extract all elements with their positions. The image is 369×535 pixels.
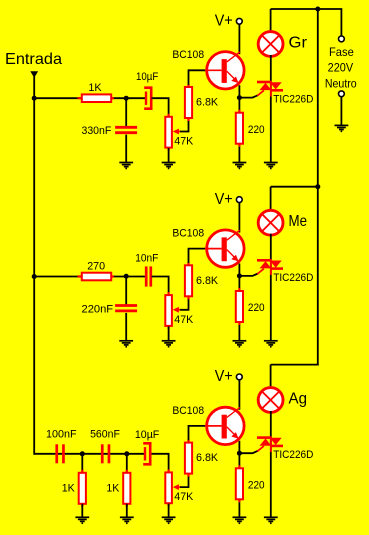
lamp Me bbox=[258, 210, 283, 235]
svg-text:Gr: Gr bbox=[289, 34, 308, 51]
ground under 220 stage2 bbox=[233, 341, 247, 347]
resistor 1K series (stage1) bbox=[78, 94, 114, 102]
capacitor 330nF bbox=[115, 127, 137, 132]
wire emitter stage2 bbox=[238, 264, 240, 276]
wire 1K-a drop bbox=[81, 454, 83, 473]
junction left bus stage2 bbox=[32, 274, 37, 279]
wire cap out to pot stage1 bbox=[152, 98, 169, 117]
wire stage2 input row bbox=[34, 276, 145, 278]
wire lamp top stage3 bbox=[270, 365, 272, 389]
wire collector stage2 bbox=[238, 203, 240, 233]
potentiometer 47K stage3 bbox=[165, 469, 172, 506]
wire neutro to ground bbox=[340, 97, 342, 126]
wire lamp bus stage2 bbox=[271, 186, 319, 188]
ground under pot stage3 bbox=[162, 517, 176, 523]
capacitor 10uF (stage1) bbox=[144, 88, 151, 109]
svg-text:V+: V+ bbox=[215, 13, 233, 30]
transistor BC108 Q2 bbox=[205, 230, 244, 267]
svg-text:560nF: 560nF bbox=[90, 429, 120, 441]
wire 220 drop stage3 bbox=[238, 453, 240, 468]
wire lamp to triac to ground stage3 bbox=[270, 411, 272, 517]
svg-text:Fase: Fase bbox=[329, 45, 354, 59]
node emitter stage1 bbox=[237, 95, 242, 100]
resistor 6.8K stage3 bbox=[185, 440, 192, 477]
wiper arrow 47K stage1 bbox=[173, 129, 181, 135]
svg-text:TIC226D: TIC226D bbox=[273, 272, 313, 284]
svg-text:6.8K: 6.8K bbox=[196, 452, 219, 464]
terminal V+ stage3 bbox=[236, 374, 242, 380]
junction fase bus stage2 bbox=[315, 184, 320, 189]
wire 220nF to ground bbox=[125, 313, 127, 341]
svg-text:BC108: BC108 bbox=[172, 228, 204, 240]
wire collector stage1 bbox=[238, 24, 240, 54]
wire stage3 row caps segment bbox=[56, 453, 146, 455]
wire 220 to ground stage1 bbox=[238, 147, 240, 163]
junction node B2 bbox=[124, 451, 129, 456]
wire lamp top stage1 bbox=[270, 9, 272, 33]
ground under triac stage1 bbox=[264, 163, 278, 169]
resistor 220 stage3 bbox=[236, 465, 243, 502]
resistor 1K shunt a (stage3) bbox=[79, 470, 86, 507]
ground under 220nF bbox=[119, 341, 133, 347]
wire left input bus bbox=[33, 77, 35, 455]
svg-text:47K: 47K bbox=[174, 491, 194, 503]
potentiometer 47K stage1 bbox=[165, 114, 172, 151]
wire 6.8K to base stage1 bbox=[189, 70, 206, 84]
triac TIC226D stage1 bbox=[257, 81, 283, 97]
wire right fase bus bbox=[317, 9, 319, 366]
svg-text:Entrada: Entrada bbox=[5, 51, 62, 68]
wire 6.8K to base stage3 bbox=[189, 426, 206, 440]
wire 220nF drop bbox=[125, 277, 127, 305]
ground under pot stage2 bbox=[162, 341, 176, 347]
svg-text:100nF: 100nF bbox=[46, 429, 77, 441]
ground under 330nF bbox=[119, 163, 133, 169]
wire wiper to 6.8K stage3 bbox=[180, 473, 188, 487]
svg-text:Me: Me bbox=[289, 213, 308, 230]
wire collector stage3 bbox=[238, 380, 240, 410]
ground neutro bbox=[335, 125, 349, 131]
node emitter stage3 bbox=[237, 451, 242, 456]
svg-text:220: 220 bbox=[248, 479, 265, 491]
input terminal arrow bbox=[30, 71, 38, 78]
resistor 6.8K stage1 bbox=[185, 84, 192, 121]
wire 220 to ground stage2 bbox=[238, 325, 240, 341]
svg-text:1K: 1K bbox=[106, 483, 120, 495]
resistor 6.8K stage2 bbox=[185, 262, 192, 299]
wire cap out to pot stage3 bbox=[152, 454, 169, 473]
transistor BC108 Q1 bbox=[205, 52, 244, 89]
ground under 220 stage1 bbox=[233, 163, 247, 169]
capacitor 220nF bbox=[115, 306, 137, 311]
wire 1K-a to ground bbox=[81, 504, 83, 518]
wire stage1 input row bbox=[34, 97, 145, 99]
junction node A2 bbox=[124, 274, 129, 279]
wiper arrow 47K stage2 bbox=[173, 307, 181, 313]
svg-text:V+: V+ bbox=[215, 191, 233, 208]
svg-text:10µF: 10µF bbox=[135, 429, 160, 441]
capacitor 10uF (stage3) bbox=[143, 443, 150, 464]
junction left bus stage1 bbox=[32, 96, 37, 101]
svg-text:1K: 1K bbox=[62, 483, 76, 495]
wire lamp top stage2 bbox=[270, 187, 272, 212]
svg-text:220: 220 bbox=[248, 302, 265, 314]
ground under 220 stage3 bbox=[233, 517, 247, 523]
terminal Fase bbox=[339, 36, 345, 42]
wiper arrow 47K stage3 bbox=[173, 484, 181, 490]
wire cap out to pot stage2 bbox=[152, 277, 169, 296]
wire 220 drop stage1 bbox=[238, 98, 240, 113]
triac TIC226D stage3 bbox=[257, 437, 283, 453]
capacitor 100nF bbox=[57, 444, 64, 463]
capacitor 560nF bbox=[102, 444, 109, 463]
lamp Ag bbox=[258, 388, 283, 413]
triac TIC226D stage2 bbox=[257, 259, 283, 275]
resistor 270 series (stage2) bbox=[78, 273, 114, 281]
wire 330nF to ground bbox=[125, 135, 127, 163]
wire emitter stage3 bbox=[238, 441, 240, 453]
wire gate stage2 bbox=[239, 274, 258, 276]
resistor 1K shunt b (stage3) bbox=[123, 470, 130, 507]
lamp Gr bbox=[258, 32, 283, 57]
svg-text:6.8K: 6.8K bbox=[196, 275, 219, 287]
svg-text:1K: 1K bbox=[88, 82, 102, 94]
wire pot to ground stage1 bbox=[168, 148, 170, 162]
wire wiper to 6.8K stage2 bbox=[180, 296, 188, 310]
junction fase bus top bbox=[315, 7, 320, 12]
svg-text:BC108: BC108 bbox=[172, 49, 204, 61]
ground under pot stage1 bbox=[162, 163, 176, 169]
ground under 1K a bbox=[75, 517, 89, 523]
wire 1K-b to ground bbox=[126, 504, 128, 518]
wire 330nF drop bbox=[125, 98, 127, 126]
terminal V+ stage2 bbox=[236, 197, 242, 203]
ground under triac stage3 bbox=[264, 517, 278, 523]
wire emitter stage1 bbox=[238, 85, 240, 97]
wire stage3 input row bbox=[34, 453, 55, 455]
svg-text:330nF: 330nF bbox=[82, 125, 112, 137]
wire 220 drop stage2 bbox=[238, 276, 240, 291]
svg-text:47K: 47K bbox=[174, 136, 194, 148]
svg-text:220: 220 bbox=[248, 124, 265, 136]
wire to fase terminal bbox=[318, 9, 342, 36]
svg-text:TIC226D: TIC226D bbox=[273, 449, 313, 461]
svg-text:6.8K: 6.8K bbox=[196, 97, 219, 109]
svg-text:BC108: BC108 bbox=[172, 405, 204, 417]
wire lamp bus stage1 bbox=[271, 8, 319, 10]
resistor 220 stage2 bbox=[236, 288, 243, 325]
svg-text:10µF: 10µF bbox=[136, 71, 159, 83]
junction node B1 bbox=[80, 451, 85, 456]
wire 1K-b drop bbox=[126, 454, 128, 473]
svg-text:V+: V+ bbox=[215, 368, 233, 385]
svg-text:220nF: 220nF bbox=[82, 303, 114, 315]
wire gate stage3 bbox=[239, 451, 258, 453]
wire 6.8K to base stage2 bbox=[189, 249, 206, 263]
wire lamp bus stage3 bbox=[271, 364, 319, 366]
ground under 1K b bbox=[120, 517, 134, 523]
ground under triac stage2 bbox=[264, 341, 278, 347]
svg-text:10nF: 10nF bbox=[135, 252, 158, 264]
svg-text:270: 270 bbox=[87, 261, 105, 273]
wire pot to ground stage3 bbox=[168, 504, 170, 518]
transistor BC108 Q3 bbox=[205, 407, 244, 444]
svg-text:220V: 220V bbox=[328, 61, 354, 75]
wire pot to ground stage2 bbox=[168, 326, 170, 340]
svg-text:47K: 47K bbox=[174, 314, 194, 326]
node emitter stage2 bbox=[237, 273, 242, 278]
junction node A1 bbox=[124, 96, 129, 101]
potentiometer 47K stage2 bbox=[165, 292, 172, 329]
svg-text:Neutro: Neutro bbox=[325, 77, 357, 91]
capacitor 10nF (stage2) bbox=[146, 266, 151, 286]
terminal V+ stage1 bbox=[236, 18, 242, 24]
svg-text:TIC226D: TIC226D bbox=[273, 94, 313, 106]
resistor 220 stage1 bbox=[236, 110, 243, 147]
wire gate stage1 bbox=[239, 95, 258, 97]
wire 220 to ground stage3 bbox=[238, 502, 240, 517]
wire wiper to 6.8K stage1 bbox=[180, 118, 188, 132]
wire lamp to triac to ground stage1 bbox=[270, 55, 272, 163]
terminal Neutro bbox=[339, 91, 345, 97]
svg-text:Ag: Ag bbox=[289, 390, 308, 407]
wire lamp to triac to ground stage2 bbox=[270, 234, 272, 341]
